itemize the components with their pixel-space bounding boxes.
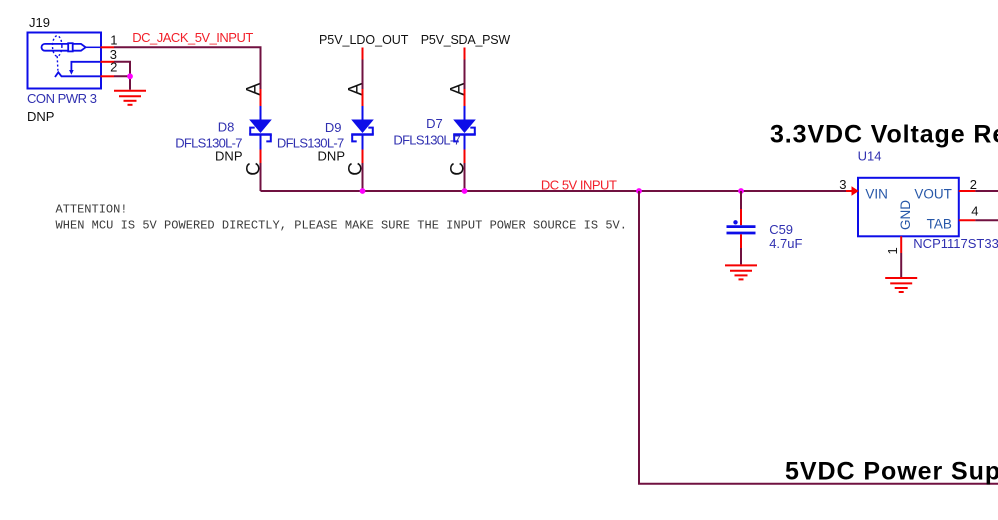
svg-text:ATTENTION!: ATTENTION! (56, 202, 128, 216)
svg-text:A: A (244, 83, 265, 96)
svg-text:D7: D7 (426, 116, 443, 131)
svg-text:J19: J19 (29, 15, 50, 30)
svg-text:C: C (448, 162, 469, 176)
svg-text:GND: GND (898, 200, 913, 230)
svg-text:4: 4 (971, 203, 978, 218)
svg-text:P5V_LDO_OUT: P5V_LDO_OUT (319, 33, 409, 47)
svg-text:DC_JACK_5V_INPUT: DC_JACK_5V_INPUT (132, 30, 253, 45)
svg-text:1: 1 (885, 247, 900, 254)
svg-text:1: 1 (110, 33, 117, 48)
svg-text:DNP: DNP (27, 109, 54, 124)
svg-text:U14: U14 (858, 149, 882, 164)
svg-text:WHEN MCU IS 5V POWERED DIRECTL: WHEN MCU IS 5V POWERED DIRECTLY, PLEASE … (56, 219, 628, 233)
svg-text:C: C (346, 162, 367, 176)
svg-text:C: C (244, 162, 265, 176)
svg-text:P5V_SDA_PSW: P5V_SDA_PSW (421, 33, 511, 47)
svg-text:DNP: DNP (215, 148, 242, 163)
svg-text:CON PWR 3: CON PWR 3 (27, 91, 97, 106)
svg-text:2: 2 (970, 177, 977, 192)
svg-text:D8: D8 (218, 120, 235, 135)
svg-text:4.7uF: 4.7uF (769, 236, 802, 251)
svg-text:DC 5V INPUT: DC 5V INPUT (541, 177, 617, 192)
svg-text:DFLS130L-7: DFLS130L-7 (393, 132, 460, 147)
svg-text:A: A (448, 83, 469, 96)
svg-text:3.3VDC Voltage Regulator: 3.3VDC Voltage Regulator (770, 121, 998, 149)
svg-text:DNP: DNP (318, 148, 345, 163)
svg-text:5VDC Power Supply: 5VDC Power Supply (785, 458, 998, 486)
svg-text:A: A (346, 83, 367, 96)
svg-text:C59: C59 (769, 222, 793, 237)
svg-text:VOUT: VOUT (914, 187, 952, 202)
svg-text:TAB: TAB (927, 216, 952, 231)
svg-text:NCP1117ST33T3G: NCP1117ST33T3G (913, 236, 998, 251)
svg-text:3: 3 (839, 177, 846, 192)
svg-text:D9: D9 (325, 120, 342, 135)
svg-text:VIN: VIN (865, 187, 888, 202)
